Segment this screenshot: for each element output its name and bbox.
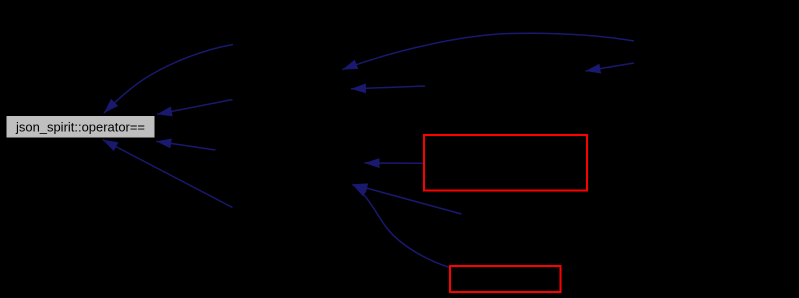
node: red truncated node 2: [450, 266, 561, 292]
edge E4: curve into top of gray node: [104, 45, 233, 114]
edge E2: far-right caller to mid-right node: [586, 63, 635, 71]
edge E10: curve from red node 2 to lower-mid node: [353, 185, 451, 268]
edge E5: into top-right corner of gray node: [157, 100, 233, 115]
edge E8: from red node 1 to mid node: [365, 162, 425, 164]
edge E1: far-right caller to mid node (long top curve): [343, 33, 635, 69]
edge E9: straight edge to lower-mid node: [353, 184, 462, 214]
node: red truncated node 1: [424, 135, 587, 191]
edge E3: mid node horizontal arrow: [351, 86, 425, 89]
edge E6: into right edge of gray node: [156, 141, 215, 150]
svg-text:json_spirit::operator==: json_spirit::operator==: [15, 120, 145, 135]
node: json_spirit::operator== (gray): [6, 116, 155, 139]
edge E7: long edge into bottom of gray node: [103, 140, 233, 208]
